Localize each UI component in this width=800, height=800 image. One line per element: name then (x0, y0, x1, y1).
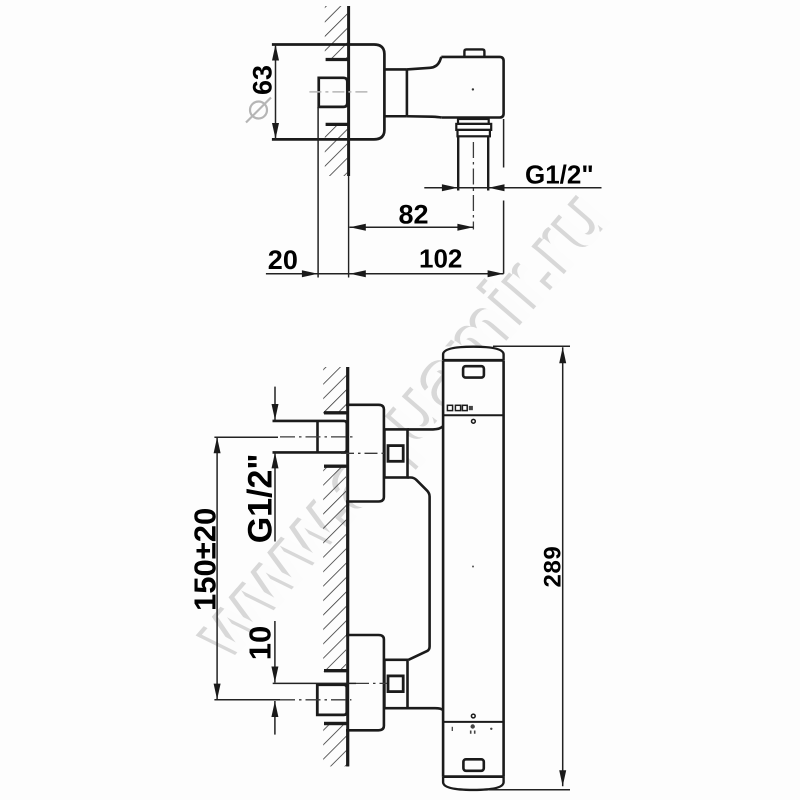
svg-text:150±20: 150±20 (188, 508, 223, 611)
svg-text:10: 10 (243, 626, 278, 660)
svg-text:289: 289 (540, 546, 567, 588)
svg-text:G1/2": G1/2" (525, 160, 594, 190)
svg-text:G1/2": G1/2" (242, 453, 280, 543)
svg-text:102: 102 (419, 244, 462, 274)
svg-text:82: 82 (399, 199, 429, 229)
svg-text:20: 20 (268, 245, 298, 275)
svg-text:63: 63 (248, 65, 278, 95)
